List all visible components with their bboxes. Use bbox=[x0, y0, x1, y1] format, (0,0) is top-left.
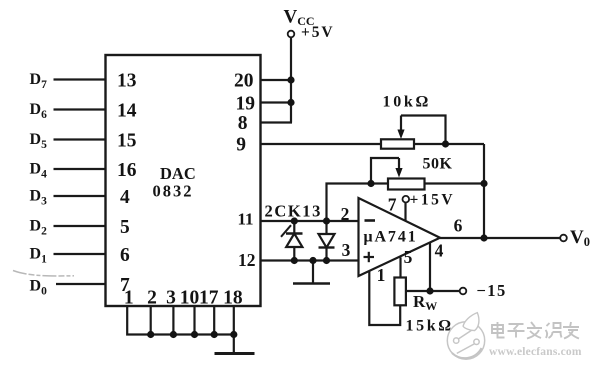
svg-text:D2: D2 bbox=[30, 218, 48, 238]
wire D0 input bbox=[56, 283, 106, 285]
wire pin12 to op-amp pin3 bbox=[261, 259, 359, 261]
U2 plus sign bbox=[364, 256, 375, 258]
resistor Rw 15k body bbox=[394, 278, 406, 306]
wire pin2 stub bbox=[150, 306, 152, 335]
svg-text:5: 5 bbox=[120, 217, 130, 238]
svg-text:8: 8 bbox=[238, 113, 248, 134]
svg-text:14: 14 bbox=[117, 101, 137, 122]
label 2CK13 leader bbox=[281, 225, 291, 237]
wire Rw wiper tap to -15 bbox=[406, 290, 460, 292]
wire pin10 stub bbox=[193, 306, 195, 335]
junction pin4/-15 line bbox=[426, 287, 433, 294]
svg-text:DAC: DAC bbox=[160, 164, 196, 183]
wire R1 wiper elbow bbox=[401, 116, 446, 145]
potentiometer R1 10k body bbox=[381, 139, 414, 148]
svg-text:6: 6 bbox=[120, 245, 130, 266]
wire pin5 stub bbox=[399, 257, 401, 277]
ground symbol under DAC bbox=[233, 335, 235, 354]
junction R1 wiper/right end bbox=[442, 140, 449, 147]
svg-text:3: 3 bbox=[166, 288, 176, 309]
wire pin3 stub bbox=[172, 306, 174, 335]
wire pin1 to Rw bottom loop bbox=[369, 271, 400, 325]
svg-text:10kΩ: 10kΩ bbox=[383, 94, 432, 111]
wire D7 input bbox=[54, 78, 106, 80]
wire R2 left to node A bbox=[327, 184, 389, 222]
wire D5 input bbox=[54, 138, 106, 140]
svg-text:19: 19 bbox=[236, 94, 256, 115]
wire D6 input bbox=[54, 108, 106, 110]
wire pin7 supply stub bbox=[404, 203, 406, 221]
svg-text:1: 1 bbox=[377, 265, 386, 285]
scan artifact squiggle bbox=[13, 271, 74, 277]
svg-text:D3: D3 bbox=[30, 188, 48, 208]
terminal +15V circle bbox=[403, 196, 410, 203]
svg-text:−15: −15 bbox=[477, 281, 507, 300]
svg-text:3: 3 bbox=[342, 240, 351, 260]
junction R2 right/node B bbox=[480, 180, 487, 187]
svg-text:6: 6 bbox=[454, 216, 463, 236]
svg-text:16: 16 bbox=[117, 160, 137, 181]
R2 wiper arrow bbox=[398, 158, 400, 170]
svg-text:D0: D0 bbox=[30, 278, 48, 298]
junction node A diode V2 bbox=[323, 217, 330, 224]
svg-text:+15V: +15V bbox=[410, 192, 456, 209]
svg-text:D5: D5 bbox=[30, 131, 48, 151]
svg-text:www.elecfans.com: www.elecfans.com bbox=[489, 346, 582, 358]
diode V1 2CK13 bbox=[286, 221, 303, 261]
wire pin4 to -15 bbox=[429, 243, 431, 291]
junction pin20/Vcc bbox=[287, 76, 294, 83]
junction bus pin2 bbox=[147, 331, 154, 338]
wire Vcc vertical bbox=[290, 38, 292, 123]
watermark chinese text bbox=[492, 322, 579, 339]
terminal V0 circle bbox=[560, 235, 567, 242]
junction pin19/Vcc bbox=[287, 99, 294, 106]
U1 pin numbers right side bbox=[234, 71, 256, 271]
svg-text:+5V: +5V bbox=[301, 24, 334, 41]
wire D2 input bbox=[54, 225, 106, 227]
svg-text:4: 4 bbox=[435, 241, 444, 261]
svg-text:11: 11 bbox=[237, 210, 253, 229]
svg-text:18: 18 bbox=[223, 288, 243, 309]
svg-text:4: 4 bbox=[120, 187, 130, 208]
svg-text:D4: D4 bbox=[30, 161, 48, 181]
diode V2 2CK13 bbox=[319, 221, 335, 261]
svg-text:D7: D7 bbox=[30, 71, 48, 91]
wire pin18 stub bbox=[233, 306, 235, 335]
wire pin9 to R1 bbox=[261, 143, 382, 145]
R1 wiper arrow bbox=[400, 116, 402, 132]
wire R2 wiper elbow bbox=[371, 158, 399, 184]
svg-text:2: 2 bbox=[147, 288, 157, 309]
labels: input bits bbox=[30, 71, 48, 298]
junction ground stub bbox=[309, 257, 316, 264]
wire R1 right to node B bbox=[414, 143, 484, 145]
svg-text:RW: RW bbox=[413, 292, 437, 313]
U1 pin numbers bottom row bbox=[124, 288, 243, 309]
svg-text:0832: 0832 bbox=[153, 182, 194, 201]
wire pin11 to op-amp pin2 bbox=[261, 220, 359, 222]
svg-text:13: 13 bbox=[117, 71, 137, 92]
terminal -15 circle bbox=[460, 288, 467, 295]
wire pin8 to Vcc bbox=[261, 121, 293, 123]
svg-text:10: 10 bbox=[180, 288, 200, 309]
svg-text:17: 17 bbox=[199, 288, 219, 309]
svg-text:15kΩ: 15kΩ bbox=[406, 318, 454, 335]
svg-text:1: 1 bbox=[124, 288, 134, 309]
wire D3 input bbox=[54, 195, 106, 197]
op-amp U2 uA741 triangle bbox=[359, 198, 441, 276]
potentiometer R2 50K body bbox=[388, 179, 425, 190]
svg-text:50K: 50K bbox=[423, 156, 453, 173]
svg-text:D6: D6 bbox=[30, 101, 48, 121]
wire D1 input bbox=[54, 253, 106, 255]
svg-text:5: 5 bbox=[404, 247, 413, 267]
junction bus pin18 bbox=[230, 331, 237, 338]
svg-text:2CK13: 2CK13 bbox=[265, 202, 323, 221]
svg-text:2: 2 bbox=[341, 204, 350, 224]
svg-text:7: 7 bbox=[388, 195, 397, 215]
junction bus pin17 bbox=[211, 331, 218, 338]
junction diode V1 bottom bbox=[291, 257, 298, 264]
wire pin1 to ground bus bbox=[127, 306, 234, 335]
wire pin19 to Vcc bbox=[261, 101, 292, 103]
svg-text:20: 20 bbox=[234, 71, 254, 92]
terminal Vcc circle bbox=[288, 31, 295, 38]
wire pin6 output bbox=[440, 237, 560, 239]
wire pin20 to Vcc bbox=[261, 79, 292, 81]
wire pin17 stub bbox=[213, 306, 215, 335]
svg-text:15: 15 bbox=[117, 131, 137, 152]
U2 minus sign bbox=[365, 219, 376, 222]
svg-text:12: 12 bbox=[238, 250, 256, 270]
label DAC 0832 bbox=[153, 164, 196, 201]
svg-text:μA741: μA741 bbox=[364, 229, 418, 246]
svg-text:9: 9 bbox=[236, 135, 246, 156]
junction diode V2 bottom bbox=[323, 257, 330, 264]
watermark logo bbox=[447, 313, 484, 360]
junction diode V1 anode wire bbox=[291, 217, 298, 224]
wire R2 right to node B bbox=[425, 182, 485, 184]
U1 pin numbers left side bbox=[117, 71, 137, 297]
ground bus under DAC bbox=[127, 306, 234, 335]
svg-text:V0: V0 bbox=[570, 227, 590, 249]
junction bus pin10 bbox=[191, 331, 198, 338]
junction bus pin3 bbox=[170, 331, 177, 338]
svg-text:D1: D1 bbox=[30, 246, 48, 266]
wire node B vertical bbox=[483, 144, 485, 238]
wire D4 input bbox=[54, 168, 106, 170]
junction node B/output bbox=[480, 234, 487, 241]
IC U1 DAC0832 body bbox=[106, 55, 261, 306]
junction R2 wiper/left end bbox=[367, 180, 374, 187]
ground at diodes bbox=[312, 261, 314, 284]
